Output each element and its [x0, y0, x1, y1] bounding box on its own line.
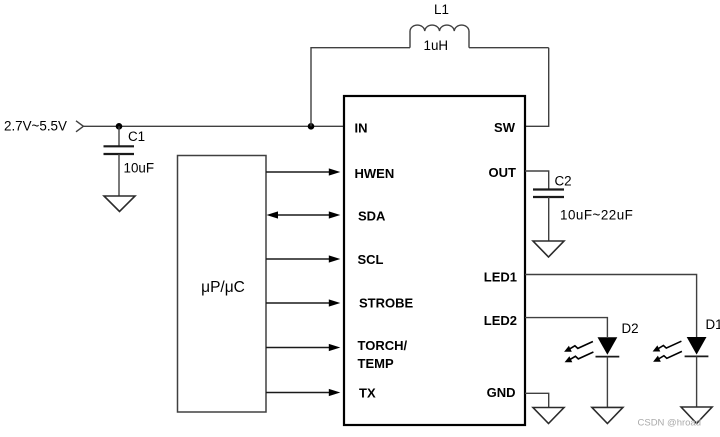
wire arrow SDA (bidirectional): [267, 211, 341, 218]
svg-text:10uF~22uF: 10uF~22uF: [560, 208, 633, 223]
capacitor C1: [104, 146, 135, 154]
ground symbol C1: [104, 196, 135, 212]
input connector chevron: [76, 121, 83, 132]
wire arrow HWEN: [266, 168, 340, 175]
svg-text:OUT: OUT: [489, 165, 517, 180]
svg-text:LED1: LED1: [484, 270, 517, 285]
light arrows D1: [653, 341, 682, 351]
wire riser to top rail: [310, 47, 312, 126]
capacitor C2: [533, 190, 564, 198]
svg-text:STROBE: STROBE: [359, 296, 414, 311]
svg-text:C1: C1: [128, 129, 145, 144]
ground symbol GND pin: [533, 408, 564, 424]
inductor L1: [410, 25, 469, 48]
wire OUT to C2: [525, 171, 549, 189]
svg-text:L1: L1: [434, 2, 449, 17]
wire SW riser: [525, 48, 549, 127]
wire junction to C1 top plate: [118, 126, 120, 146]
microcontroller block uP/uC: [178, 156, 267, 413]
svg-text:CSDN @hroad: CSDN @hroad: [638, 418, 702, 429]
IC U1 box: [344, 96, 525, 425]
svg-text:1uH: 1uH: [424, 38, 449, 53]
wire input to IN pin: [83, 125, 344, 127]
svg-text:TX: TX: [359, 386, 376, 401]
ground symbol C2: [533, 241, 564, 257]
wire C2 to ground: [548, 197, 550, 241]
wire C1 bottom plate to ground: [118, 154, 120, 196]
svg-text:LED2: LED2: [484, 313, 517, 328]
svg-text:SW: SW: [494, 120, 516, 135]
svg-text:TEMP: TEMP: [358, 356, 394, 371]
svg-text:IN: IN: [355, 121, 368, 136]
wire arrow TX: [266, 389, 340, 396]
node junction at C1: [116, 123, 123, 130]
svg-text:HWEN: HWEN: [355, 166, 395, 181]
svg-text:SDA: SDA: [358, 209, 386, 224]
svg-text:D1: D1: [706, 317, 720, 332]
svg-text:TORCH/: TORCH/: [358, 338, 408, 353]
wire arrow TORCH/TEMP: [266, 344, 340, 351]
wire arrow STROBE: [266, 299, 340, 306]
svg-text:GND: GND: [487, 385, 516, 400]
svg-text:10uF: 10uF: [124, 161, 155, 176]
wire LED2 to D2: [525, 318, 607, 337]
ground symbol D1: [681, 407, 712, 424]
ground symbol D2: [592, 407, 623, 423]
node junction at IN riser: [308, 123, 315, 130]
light arrows D2: [564, 342, 593, 352]
svg-text:μP/μC: μP/μC: [201, 279, 245, 296]
wire GND to ground: [525, 393, 549, 407]
wire top rail right to SW riser: [469, 47, 549, 49]
LED D2: [596, 337, 620, 407]
LED D1: [685, 337, 709, 407]
svg-text:D2: D2: [622, 321, 639, 336]
wire arrow SCL: [266, 255, 340, 262]
svg-text:2.7V~5.5V: 2.7V~5.5V: [4, 119, 67, 134]
wire top rail left to inductor: [311, 47, 410, 49]
svg-text:SCL: SCL: [358, 252, 384, 267]
wire LED1 to D1: [525, 275, 697, 338]
svg-text:C2: C2: [555, 174, 572, 189]
